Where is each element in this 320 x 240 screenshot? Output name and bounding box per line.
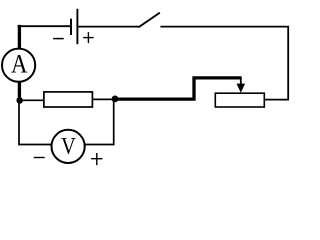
wire top-left horizontal to battery [18,25,70,27]
voltmeter plus label [91,153,102,165]
switch S1 blade (open) [138,13,159,28]
node junction dot left [16,97,23,104]
svg-text:A: A [11,50,28,79]
battery B1 positive long plate [76,9,78,44]
voltmeter U2 circle [52,130,85,163]
battery minus label [53,38,64,40]
voltmeter branch wire loop [19,100,114,145]
battery B1 negative short plate [70,19,72,35]
svg-text:V: V [61,132,76,159]
wire battery to switch [78,26,139,28]
wire thick vertical through ammeter branch [18,25,21,101]
ammeter U1 circle [2,49,35,82]
wire switch to top-right corner and down right side [160,27,288,100]
node junction dot right [112,96,119,103]
rheostat R2 wiper arrowhead [237,84,246,93]
wire resistor to right junction [92,98,114,100]
wire thick: junction to rheostat wiper feed [114,78,242,99]
wire right corner to rheostat right terminal [264,99,289,101]
rheostat R2 wiper arrow stem [240,78,242,86]
resistor R1 body [44,92,93,107]
wire left junction to resistor [19,99,45,101]
battery plus label [83,32,93,43]
voltmeter minus label [34,157,45,159]
rheostat R2 body [215,93,264,107]
